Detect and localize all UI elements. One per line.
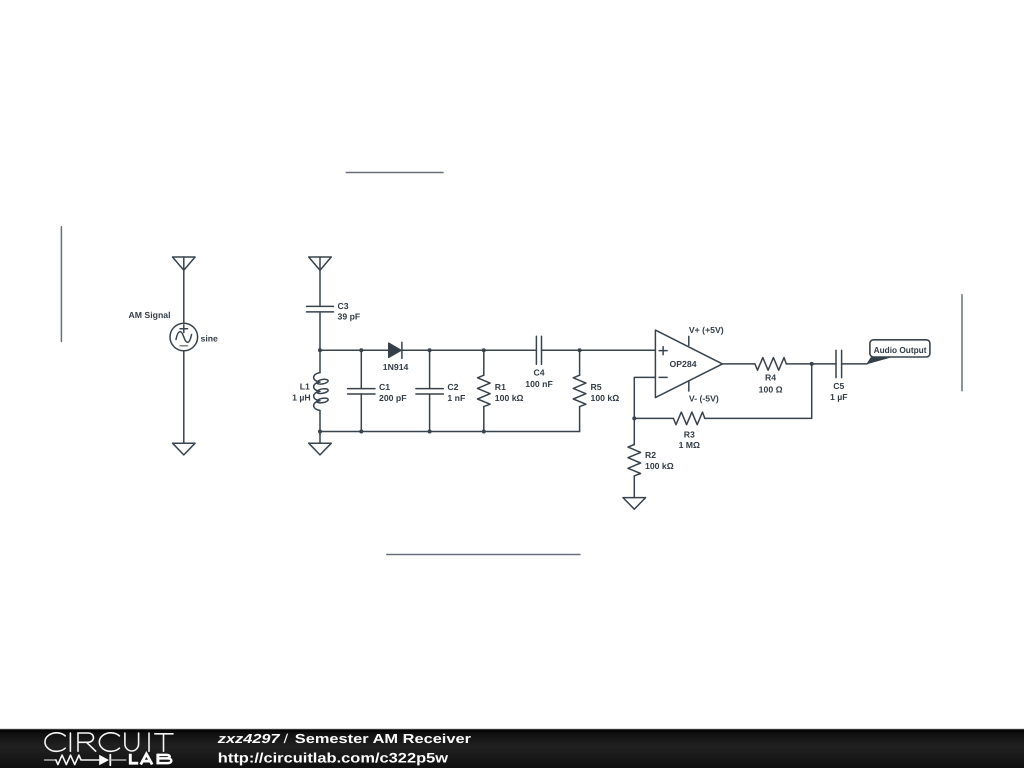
svg-text:C2: C2 <box>447 382 458 392</box>
junction dots <box>318 348 814 433</box>
svg-text:OP284: OP284 <box>670 359 697 369</box>
footer bar <box>0 728 1024 730</box>
svg-text:V- (-5V): V- (-5V) <box>689 394 719 404</box>
svg-text:zxz4297: zxz4297 <box>217 731 281 746</box>
capacitor C5 <box>836 350 842 377</box>
svg-text:sine: sine <box>201 334 219 344</box>
svg-text:100 Ω: 100 Ω <box>759 385 783 395</box>
op-amp V+ pin <box>688 336 690 345</box>
svg-text:AM Signal: AM Signal <box>129 310 171 320</box>
svg-text:R4: R4 <box>765 372 776 382</box>
logo diode <box>99 755 109 766</box>
source V1 sine <box>176 332 192 343</box>
wire feedback from minus input <box>634 377 655 418</box>
svg-text:Semester AM Receiver: Semester AM Receiver <box>295 731 471 746</box>
antenna ANT1 <box>173 257 196 270</box>
svg-text:C1: C1 <box>379 382 390 392</box>
ground GND2 <box>309 443 332 455</box>
annotation line right <box>961 295 963 391</box>
svg-text:V+ (+5V): V+ (+5V) <box>689 325 724 335</box>
wire ANT2 to C3 <box>319 257 321 306</box>
logo I1 <box>69 733 71 751</box>
diode D1 <box>389 343 401 357</box>
capacitor C3 <box>307 306 334 312</box>
op-amp U1 <box>655 330 722 398</box>
svg-text:L1: L1 <box>300 382 310 392</box>
svg-text:/: / <box>284 731 289 746</box>
svg-text:100 kΩ: 100 kΩ <box>591 393 620 403</box>
flag pointer <box>866 357 892 364</box>
svg-text:R5: R5 <box>591 382 602 392</box>
svg-text:Audio Output: Audio Output <box>874 345 927 355</box>
logo LAB <box>130 754 171 765</box>
resistor R1 <box>483 350 485 375</box>
logo U <box>125 733 139 751</box>
svg-text:100 nF: 100 nF <box>525 379 553 389</box>
capacitor C2 <box>429 350 431 388</box>
svg-text:1 nF: 1 nF <box>447 393 465 403</box>
ground GND3 <box>623 498 646 510</box>
svg-text:1 MΩ: 1 MΩ <box>679 440 700 450</box>
svg-text:R2: R2 <box>645 450 656 460</box>
wire V1 to ground <box>183 351 185 443</box>
logo squiggle resistor <box>45 755 126 766</box>
svg-text:200 pF: 200 pF <box>379 393 407 403</box>
source V1 plus <box>180 325 188 333</box>
svg-text:R1: R1 <box>495 382 506 392</box>
resistor R4 <box>755 358 786 371</box>
logo R <box>78 733 96 751</box>
wire main bus mid <box>402 349 537 351</box>
antenna ANT2 <box>309 257 332 270</box>
svg-text:1N914: 1N914 <box>383 362 409 372</box>
svg-text:100 kΩ: 100 kΩ <box>645 461 674 471</box>
inductor L1 <box>319 350 321 372</box>
svg-text:http://circuitlab.com/c322p5w: http://circuitlab.com/c322p5w <box>218 750 449 765</box>
logo T <box>155 734 173 751</box>
annotation line left <box>60 227 62 342</box>
logo CIRCUIT letters <box>45 733 173 752</box>
capacitor C4 <box>536 336 541 364</box>
svg-text:R3: R3 <box>684 430 695 440</box>
wire feedback bottom left <box>634 417 673 419</box>
source V1 circle <box>170 323 198 351</box>
svg-text:C3: C3 <box>338 301 349 311</box>
svg-text:39 pF: 39 pF <box>338 311 361 321</box>
wire R4 to C5 <box>786 363 836 365</box>
component labels <box>129 301 927 471</box>
source V1 minus <box>180 345 188 347</box>
resistor R3 <box>673 412 704 425</box>
logo I2 <box>148 733 150 751</box>
annotation line top <box>346 172 443 174</box>
op-amp V- pin <box>688 381 690 391</box>
annotation line bottom <box>387 554 580 556</box>
capacitor C1 <box>360 350 362 388</box>
wire stub to ground GND2 <box>319 432 321 444</box>
wire R3 to output node <box>705 364 812 419</box>
logo C1 <box>45 733 65 752</box>
svg-text:C4: C4 <box>533 367 544 377</box>
svg-text:100 kΩ: 100 kΩ <box>495 393 524 403</box>
svg-text:C5: C5 <box>833 381 844 391</box>
wire C5 to flag <box>842 363 867 365</box>
wire C3 to node <box>319 312 321 350</box>
wire main bus right <box>542 349 656 351</box>
resistor R2 <box>633 418 635 444</box>
wire main bus left <box>320 349 389 351</box>
ground GND1 <box>173 443 196 455</box>
resistor R5 <box>579 350 581 375</box>
svg-text:1 µF: 1 µF <box>830 392 848 402</box>
flag Audio Output box <box>870 340 930 357</box>
logo C2 <box>99 733 119 752</box>
wire bottom bus <box>320 431 580 433</box>
svg-text:1 µH: 1 µH <box>292 392 311 402</box>
wire opamp out <box>722 363 755 365</box>
